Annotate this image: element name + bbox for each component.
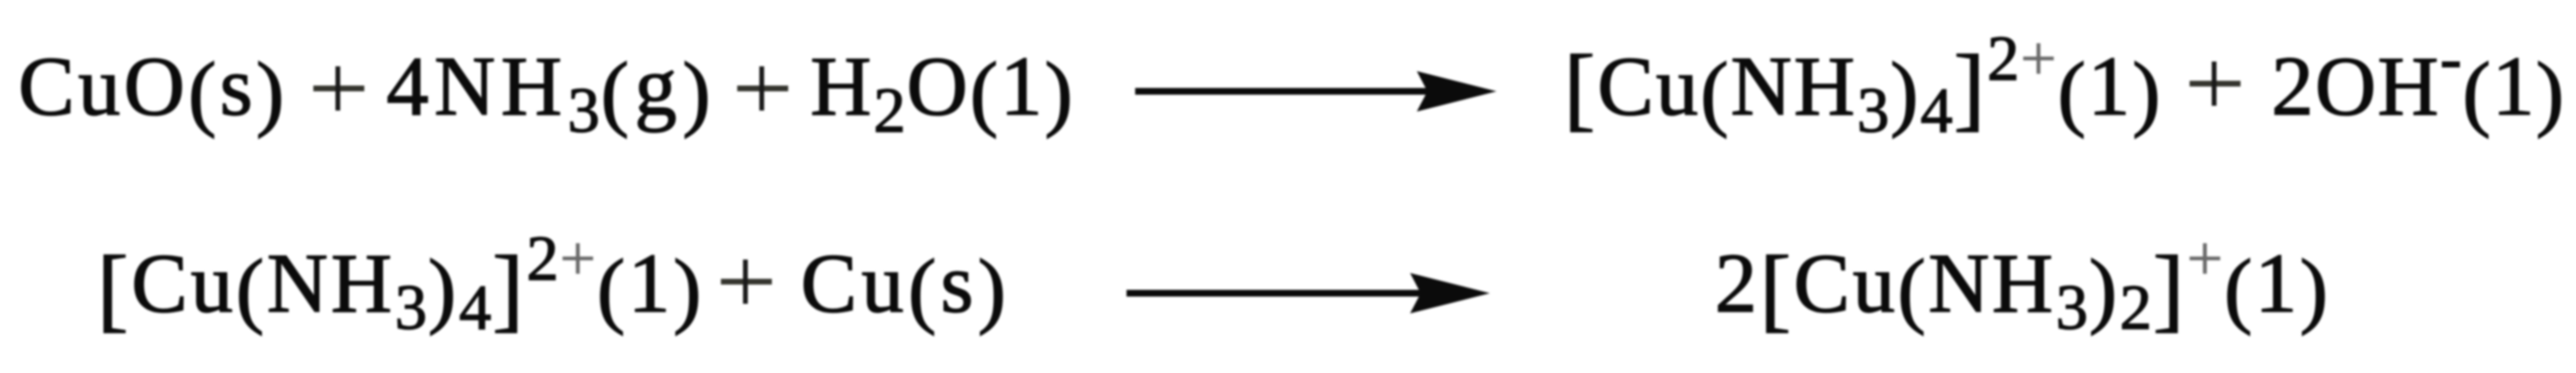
- plus 1: [313, 66, 364, 111]
- reaction arrow 1: [1135, 71, 1499, 112]
- plus 2: [737, 66, 788, 111]
- line 1 reactant CuO(s): [18, 45, 287, 130]
- line 1 reactant H2O(l): [810, 45, 1075, 130]
- line 1 product 2OH-(l): [2271, 45, 2565, 130]
- line 2 product 2[Cu(NH3)2]+(l): [1715, 242, 2331, 327]
- line 2 reactant [Cu(NH3)4]2+(l): [97, 242, 705, 327]
- plus 3: [2190, 62, 2241, 106]
- line 1 product [Cu(NH3)4]2+(l): [1564, 45, 2163, 130]
- line 1 reactant 4NH3(g): [386, 45, 716, 130]
- plus 4: [721, 260, 772, 304]
- reaction arrow 2: [1127, 273, 1491, 313]
- line 2 reactant Cu(s): [801, 242, 1010, 327]
